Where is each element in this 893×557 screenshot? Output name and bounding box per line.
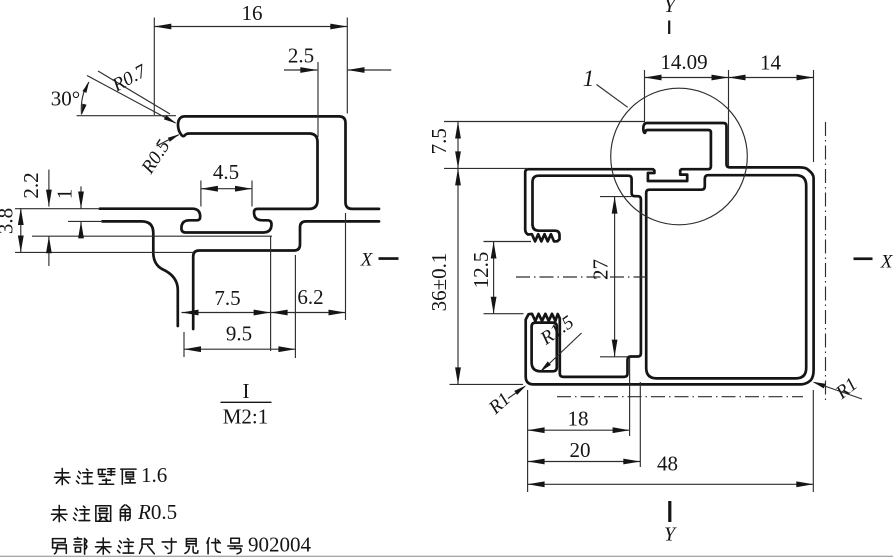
svg-text:Y: Y bbox=[664, 524, 677, 546]
svg-text:18: 18 bbox=[568, 406, 589, 430]
svg-text:27: 27 bbox=[588, 259, 612, 280]
svg-text:1: 1 bbox=[583, 66, 595, 91]
svg-text:1.6: 1.6 bbox=[141, 463, 167, 487]
svg-text:4.5: 4.5 bbox=[213, 160, 239, 184]
svg-text:36±0.1: 36±0.1 bbox=[427, 253, 451, 312]
svg-text:48: 48 bbox=[657, 451, 678, 475]
svg-text:R0.5: R0.5 bbox=[137, 136, 174, 178]
svg-text:9.5: 9.5 bbox=[226, 321, 252, 345]
svg-text:902004: 902004 bbox=[248, 532, 312, 556]
svg-text:X: X bbox=[360, 249, 374, 270]
svg-text:3.8: 3.8 bbox=[0, 208, 17, 234]
svg-text:R0.7: R0.7 bbox=[108, 60, 151, 97]
svg-text:R1: R1 bbox=[484, 389, 514, 419]
svg-text:6.2: 6.2 bbox=[297, 285, 323, 309]
svg-text:X: X bbox=[880, 251, 893, 272]
svg-text:20: 20 bbox=[570, 438, 591, 462]
svg-text:R0.5: R0.5 bbox=[137, 500, 177, 524]
svg-text:1: 1 bbox=[52, 189, 76, 200]
svg-text:7.5: 7.5 bbox=[427, 128, 451, 154]
svg-text:14.09: 14.09 bbox=[660, 50, 707, 74]
svg-text:16: 16 bbox=[242, 1, 263, 25]
svg-text:12.5: 12.5 bbox=[469, 252, 493, 289]
svg-text:30°: 30° bbox=[51, 86, 80, 110]
svg-text:2.2: 2.2 bbox=[19, 172, 43, 198]
svg-text:Y: Y bbox=[664, 0, 677, 17]
svg-text:I: I bbox=[243, 379, 250, 403]
svg-text:M2:1: M2:1 bbox=[223, 404, 269, 428]
svg-text:2.5: 2.5 bbox=[288, 43, 314, 67]
svg-text:7.5: 7.5 bbox=[214, 286, 240, 310]
svg-text:R1: R1 bbox=[831, 374, 861, 404]
svg-text:14: 14 bbox=[760, 50, 782, 74]
